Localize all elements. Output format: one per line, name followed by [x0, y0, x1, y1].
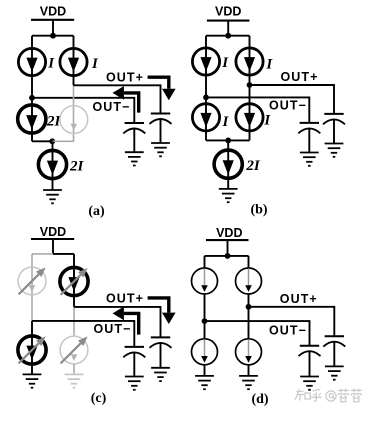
wire disabled branch (a) [52, 85, 73, 141]
wire bottom join (b) [206, 139, 250, 141]
wire top rail gray segment (c) [32, 253, 53, 255]
wire cap stub (b C1) [308, 129, 310, 153]
watermark zhihu [295, 389, 362, 402]
wire disabled tail (c) [73, 364, 75, 374]
capacitor C1 left (d) [300, 345, 319, 347]
ground under C2 (b) [325, 143, 344, 145]
capacitor C2 right (d) [325, 335, 344, 337]
svg-text:I: I [263, 113, 271, 129]
wire OUT- net (c) [32, 321, 134, 347]
current source 2I bottom (a) [38, 150, 66, 178]
svg-text:OUT+: OUT+ [106, 291, 144, 305]
svg-text:I: I [47, 56, 55, 72]
svg-text:OUT−: OUT− [269, 99, 307, 113]
ground main (a) [43, 189, 62, 191]
ground main (b) [219, 188, 238, 190]
current source upper-left (d) [192, 268, 218, 294]
wire top rail (d) [205, 255, 249, 257]
wire cap stub (d C1) [309, 351, 311, 376]
wire cap stub (a C2) [160, 119, 162, 143]
current source disabled gray (a) [60, 106, 88, 134]
power rail VDD (d) [206, 239, 249, 241]
current source I upper-right (b) [236, 48, 263, 75]
annotation arrow OUT+ (c) [148, 298, 176, 324]
ground under C2 (d) [325, 365, 344, 367]
svg-text:I: I [221, 55, 229, 71]
node OUT- (d) [202, 318, 208, 324]
annotation arrow OUT- (c) [113, 307, 139, 335]
svg-text:(b): (b) [250, 203, 267, 218]
node: rail tee junction (a) [50, 33, 56, 39]
current source I upper-left (b) [192, 48, 219, 75]
wire OUT+ net (b) [250, 85, 335, 114]
svg-text:(d): (d) [251, 392, 268, 407]
ground under C2 (a) [151, 142, 170, 144]
svg-text:2I: 2I [46, 113, 62, 129]
node: rail tee junction (d) [225, 253, 231, 259]
svg-text:I: I [222, 114, 230, 130]
current source I lower-right (b) [236, 104, 263, 131]
wire OUT- net (d) [205, 321, 310, 346]
svg-text:I: I [91, 56, 99, 72]
wire VDD stem (b) [227, 21, 229, 36]
current source active upper-right (c) [60, 267, 88, 295]
svg-text:(c): (c) [91, 391, 107, 406]
wire top rail black segment (c) [53, 253, 74, 255]
wire right branch lower (d) [248, 307, 250, 340]
ground under C1 (d) [300, 376, 319, 378]
current source disabled upper-left (c) [18, 267, 46, 295]
wire tail branch (b) [227, 140, 229, 189]
node OUT+ (d) [246, 304, 252, 310]
wire VDD stem (d) [227, 240, 229, 256]
current source lower-right (d) [236, 339, 262, 365]
svg-text:OUT−: OUT− [269, 324, 307, 338]
wire right branch (b) [249, 36, 251, 141]
capacitor C2 right (c) [151, 336, 170, 338]
current source 2I (b) [214, 150, 242, 178]
wire VDD stem (a) [52, 20, 54, 36]
ground under C1 (c) [125, 376, 144, 378]
svg-text:VDD: VDD [216, 226, 242, 240]
wire left branch upper (a) [31, 36, 33, 98]
annotation arrow OUT+ (a) [148, 77, 176, 100]
wire cap stub (c C2) [160, 343, 162, 368]
svg-text:VDD: VDD [40, 5, 66, 19]
svg-text:VDD: VDD [215, 5, 241, 19]
power rail VDD (b) [207, 20, 250, 22]
wire top rail (a) [32, 35, 74, 37]
wire left branch (b) [205, 36, 207, 141]
svg-text:VDD: VDD [40, 225, 66, 239]
capacitor C1 left (a) [125, 122, 144, 124]
svg-text:I: I [265, 56, 273, 72]
wire right branch (c) [73, 254, 75, 307]
wire cap stub (b C2) [333, 120, 335, 144]
wire cap stub (d C2) [333, 342, 335, 367]
svg-text:OUT+: OUT+ [106, 70, 144, 84]
current source I right (a) [60, 48, 87, 75]
wire top rail (b) [206, 35, 250, 37]
node bottom junction (b) [225, 138, 231, 144]
node OUT- (a) [29, 95, 35, 101]
node OUT- (b) [203, 95, 209, 101]
current source I left (a) [18, 48, 45, 75]
svg-text:2I: 2I [69, 158, 85, 174]
ground right (d) [239, 375, 258, 377]
current source upper-right (d) [236, 268, 262, 294]
ground main (c) [23, 373, 42, 375]
wire OUT- net (b) [206, 97, 309, 123]
power rail VDD (c) [31, 238, 74, 240]
current source active lower-left (c) [18, 336, 46, 364]
ground under C1 (b) [300, 152, 319, 154]
capacitor C2 right (b) [324, 113, 343, 115]
wire OUT+ net (a) [74, 85, 161, 113]
wire cap stub (c C1) [133, 353, 135, 377]
capacitor C2 right (a) [151, 113, 170, 115]
wire OUT+ net (c) [74, 307, 161, 338]
wire OUT- net (a) [32, 98, 134, 123]
svg-text:OUT−: OUT− [92, 100, 130, 114]
wire OUT+ net (d) [249, 307, 335, 336]
wire left branch lower (d) [204, 321, 206, 339]
wire disabled left branch (c) [31, 254, 33, 321]
node OUT+ (b) [247, 82, 253, 88]
ground disabled (c) [65, 373, 84, 375]
wire VDD stem (c) [52, 239, 54, 254]
capacitor C1 left (c) [125, 346, 144, 348]
power rail VDD (a) [31, 19, 74, 21]
wire bottom jog (a) [32, 140, 52, 142]
wire left branch upper (d) [204, 256, 206, 269]
ground under C2 (c) [151, 367, 170, 369]
current source lower-left (d) [192, 339, 218, 365]
svg-text:2I: 2I [245, 158, 261, 174]
current source disabled lower-right (c) [60, 336, 88, 364]
wire cap stub (a C1) [133, 129, 135, 153]
annotation arrow OUT- (a) [113, 86, 139, 113]
node: rail tee junction (b) [225, 33, 231, 39]
svg-text:OUT+: OUT+ [280, 70, 318, 84]
wire left branch lower (c) [31, 321, 33, 375]
current source I lower-left (b) [192, 104, 219, 131]
svg-text:OUT+: OUT+ [280, 292, 318, 306]
capacitor C1 left (b) [300, 122, 319, 124]
svg-text:(a): (a) [88, 204, 105, 219]
current source 2I middle (a) [18, 105, 46, 133]
svg-text:OUT−: OUT− [93, 322, 131, 336]
wire bottom branch (a) [52, 141, 54, 190]
wire disabled right continuation (c) [73, 307, 75, 336]
node bottom junction (a) [49, 138, 55, 144]
wire right branch upper (d) [248, 256, 250, 269]
ground under C1 (a) [125, 151, 144, 153]
wire right branch (a) [73, 36, 75, 86]
wire left branch lower (a) [31, 98, 33, 142]
ground left (d) [195, 375, 214, 377]
